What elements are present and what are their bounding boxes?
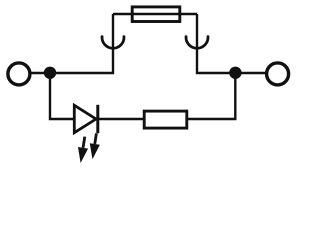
wire top fuse line <box>113 13 197 15</box>
wire right node to terminal <box>235 72 266 74</box>
contact arc right (disconnect socket) <box>186 37 208 49</box>
fuse F1 body <box>132 7 180 22</box>
wire LED to resistor <box>98 118 144 120</box>
node left junction dot <box>44 67 56 79</box>
terminal circle right <box>267 63 289 85</box>
wire resistor to right drop <box>187 73 236 119</box>
LED light arrow 1 head <box>78 147 88 163</box>
contact arc left (disconnect socket) <box>102 37 124 49</box>
node right junction dot <box>229 67 241 79</box>
resistor R1 body <box>144 111 187 128</box>
wire right riser down from fuse <box>197 14 235 73</box>
LED D1 triangle <box>74 105 96 132</box>
LED light arrow 1 tail <box>83 137 85 148</box>
LED light arrow 2 head <box>90 143 100 159</box>
wire left drop to bottom branch <box>50 73 75 119</box>
LED light arrow 2 tail <box>95 133 97 144</box>
terminal circle left <box>8 63 30 85</box>
LED D1 cathode bar <box>96 105 99 133</box>
wire node to left riser and up to fuse <box>50 14 113 73</box>
wire left terminal to node <box>30 72 49 74</box>
